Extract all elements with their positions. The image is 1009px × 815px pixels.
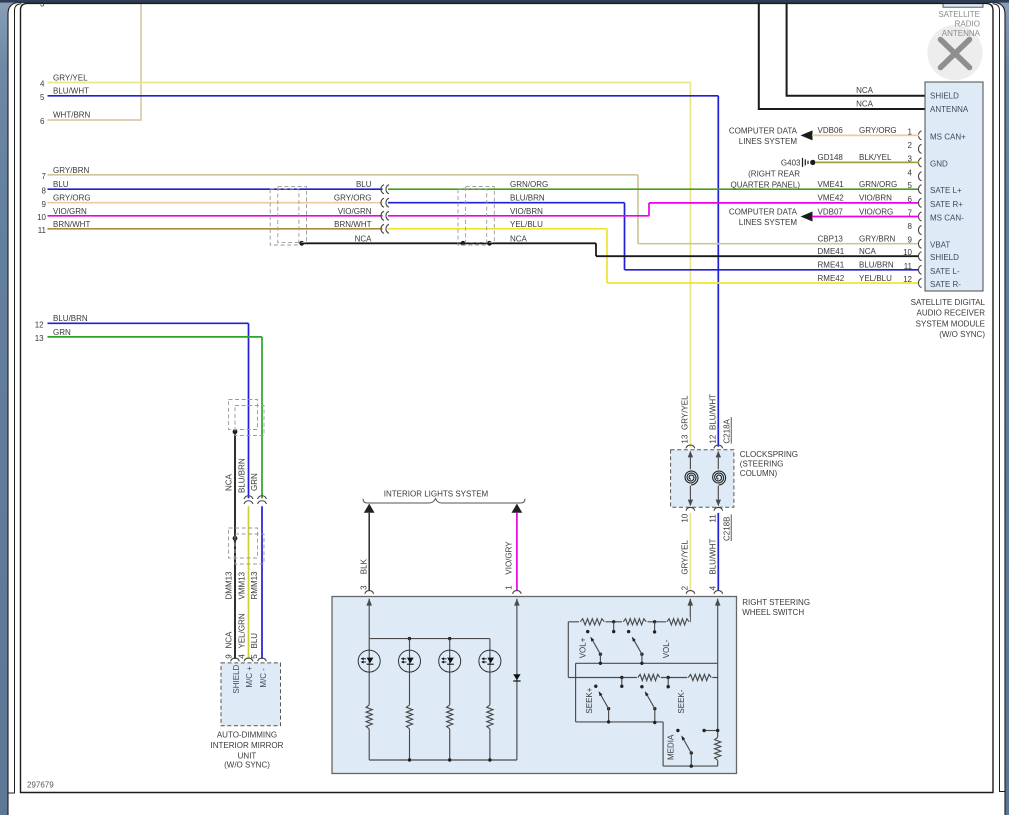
svg-text:12: 12 bbox=[708, 434, 717, 443]
svg-text:GD148: GD148 bbox=[818, 153, 844, 162]
svg-text:VIO/GRN: VIO/GRN bbox=[53, 207, 87, 216]
svg-text:UNIT: UNIT bbox=[238, 751, 257, 760]
svg-text:CLOCKSPRING: CLOCKSPRING bbox=[740, 450, 798, 459]
svg-text:BLU: BLU bbox=[250, 633, 259, 649]
svg-text:SEEK-: SEEK- bbox=[677, 689, 686, 713]
svg-text:GRY/ORG: GRY/ORG bbox=[53, 194, 91, 203]
svg-text:COMPUTER DATA: COMPUTER DATA bbox=[729, 126, 798, 135]
svg-text:9: 9 bbox=[908, 236, 913, 245]
svg-text:6: 6 bbox=[40, 117, 45, 126]
svg-text:(STEERING: (STEERING bbox=[740, 460, 784, 469]
svg-text:11: 11 bbox=[708, 514, 717, 523]
svg-text:GRY/YEL: GRY/YEL bbox=[53, 73, 88, 82]
svg-text:VIO/BRN: VIO/BRN bbox=[510, 207, 543, 216]
svg-text:GRN/ORG: GRN/ORG bbox=[510, 180, 548, 189]
svg-text:RADIO: RADIO bbox=[955, 20, 980, 29]
svg-text:CBP13: CBP13 bbox=[818, 235, 844, 244]
svg-text:12: 12 bbox=[903, 275, 912, 284]
svg-text:SATE L-: SATE L- bbox=[930, 267, 960, 276]
svg-text:RMM13: RMM13 bbox=[250, 571, 259, 600]
svg-text:VDB06: VDB06 bbox=[818, 126, 844, 135]
svg-text:4: 4 bbox=[708, 585, 717, 590]
svg-text:DME41: DME41 bbox=[818, 247, 845, 256]
svg-text:7: 7 bbox=[42, 172, 47, 181]
svg-text:NCA: NCA bbox=[856, 86, 874, 95]
svg-text:GRN: GRN bbox=[250, 473, 259, 491]
svg-text:BLU/BRN: BLU/BRN bbox=[53, 314, 88, 323]
svg-text:VME42: VME42 bbox=[818, 194, 845, 203]
svg-text:BLU/WHT: BLU/WHT bbox=[53, 87, 89, 96]
svg-text:5: 5 bbox=[250, 654, 259, 659]
svg-text:4: 4 bbox=[40, 80, 45, 89]
svg-text:BLU/BRN: BLU/BRN bbox=[510, 194, 545, 203]
svg-text:C218B: C218B bbox=[722, 517, 731, 541]
svg-text:(W/O SYNC): (W/O SYNC) bbox=[224, 761, 270, 770]
svg-text:8: 8 bbox=[908, 222, 913, 231]
svg-text:11: 11 bbox=[38, 226, 47, 235]
svg-text:NCA: NCA bbox=[856, 100, 874, 109]
svg-text:GRN/ORG: GRN/ORG bbox=[859, 180, 897, 189]
svg-text:VIO/GRN: VIO/GRN bbox=[338, 207, 372, 216]
svg-text:BLU/WHT: BLU/WHT bbox=[708, 394, 717, 430]
svg-text:NCA: NCA bbox=[859, 247, 877, 256]
svg-text:VIO/ORG: VIO/ORG bbox=[859, 207, 893, 216]
svg-text:INTERIOR LIGHTS SYSTEM: INTERIOR LIGHTS SYSTEM bbox=[384, 489, 489, 498]
svg-text:GRY/YEL: GRY/YEL bbox=[680, 540, 689, 575]
svg-text:8: 8 bbox=[42, 187, 47, 196]
svg-text:VMM13: VMM13 bbox=[237, 571, 246, 599]
svg-text:GRY/YEL: GRY/YEL bbox=[680, 395, 689, 430]
svg-text:NCA: NCA bbox=[225, 631, 234, 649]
svg-text:ANTENNA: ANTENNA bbox=[942, 29, 981, 38]
svg-text:COLUMN): COLUMN) bbox=[740, 469, 778, 478]
svg-text:SHIELD: SHIELD bbox=[930, 92, 959, 101]
svg-text:9: 9 bbox=[42, 200, 47, 209]
svg-text:GRY/ORG: GRY/ORG bbox=[859, 126, 897, 135]
svg-text:INTERIOR MIRROR: INTERIOR MIRROR bbox=[211, 741, 284, 750]
svg-text:4: 4 bbox=[237, 654, 246, 659]
svg-text:NCA: NCA bbox=[355, 234, 373, 243]
svg-text:MS CAN-: MS CAN- bbox=[930, 214, 964, 223]
svg-text:(W/O SYNC): (W/O SYNC) bbox=[939, 330, 985, 339]
svg-text:13: 13 bbox=[680, 434, 689, 443]
svg-text:BLU/WHT: BLU/WHT bbox=[708, 538, 717, 574]
svg-text:LINES SYSTEM: LINES SYSTEM bbox=[739, 137, 798, 146]
svg-text:GRY/ORG: GRY/ORG bbox=[334, 194, 372, 203]
svg-text:RME42: RME42 bbox=[818, 274, 845, 283]
svg-text:VIO/BRN: VIO/BRN bbox=[859, 194, 892, 203]
svg-text:WHEEL SWITCH: WHEEL SWITCH bbox=[742, 608, 804, 617]
svg-text:VBAT: VBAT bbox=[930, 241, 950, 250]
svg-text:10: 10 bbox=[37, 213, 46, 222]
svg-text:GRY/BRN: GRY/BRN bbox=[53, 166, 90, 175]
svg-text:VME41: VME41 bbox=[818, 180, 845, 189]
svg-text:LINES SYSTEM: LINES SYSTEM bbox=[739, 218, 798, 227]
svg-text:13: 13 bbox=[35, 334, 44, 343]
svg-text:MS CAN+: MS CAN+ bbox=[930, 132, 966, 141]
svg-text:GND: GND bbox=[930, 159, 948, 168]
svg-text:5: 5 bbox=[40, 93, 45, 102]
svg-text:YEL/BLU: YEL/BLU bbox=[510, 220, 543, 229]
svg-text:VOL-: VOL- bbox=[662, 639, 671, 658]
svg-text:2: 2 bbox=[680, 585, 689, 590]
svg-text:SATE R-: SATE R- bbox=[930, 280, 961, 289]
svg-text:10: 10 bbox=[680, 513, 689, 522]
svg-text:RIGHT STEERING: RIGHT STEERING bbox=[742, 598, 810, 607]
svg-text:BRN/WHT: BRN/WHT bbox=[53, 220, 90, 229]
svg-text:SHIELD: SHIELD bbox=[930, 253, 959, 262]
svg-text:SATE L+: SATE L+ bbox=[930, 186, 962, 195]
svg-text:(RIGHT REAR: (RIGHT REAR bbox=[748, 169, 800, 178]
svg-text:BRN/WHT: BRN/WHT bbox=[334, 220, 371, 229]
svg-text:ANTENNA: ANTENNA bbox=[930, 105, 969, 114]
svg-text:1: 1 bbox=[504, 585, 513, 590]
svg-text:BLU: BLU bbox=[356, 180, 372, 189]
svg-text:6: 6 bbox=[908, 195, 913, 204]
svg-text:GRN: GRN bbox=[53, 328, 71, 337]
svg-text:297679: 297679 bbox=[27, 780, 54, 789]
svg-text:BLK/YEL: BLK/YEL bbox=[859, 153, 892, 162]
svg-text:YEL/GRN: YEL/GRN bbox=[237, 613, 246, 648]
svg-text:SATELLITE: SATELLITE bbox=[938, 10, 980, 19]
svg-text:GRY/BRN: GRY/BRN bbox=[859, 235, 896, 244]
svg-text:AUDIO RECEIVER: AUDIO RECEIVER bbox=[917, 309, 986, 318]
svg-text:WHT/BRN: WHT/BRN bbox=[53, 111, 91, 120]
svg-text:BLU/BRN: BLU/BRN bbox=[859, 261, 894, 270]
svg-text:BLK: BLK bbox=[360, 558, 369, 574]
svg-text:VIO/GRY: VIO/GRY bbox=[504, 541, 513, 575]
svg-text:VDB07: VDB07 bbox=[818, 207, 844, 216]
svg-text:YEL/BLU: YEL/BLU bbox=[859, 274, 892, 283]
svg-text:VOL+: VOL+ bbox=[579, 637, 588, 658]
svg-text:5: 5 bbox=[908, 181, 913, 190]
svg-text:SATELLITE DIGITAL: SATELLITE DIGITAL bbox=[911, 298, 986, 307]
svg-text:AUTO-DIMMING: AUTO-DIMMING bbox=[217, 730, 277, 739]
svg-text:12: 12 bbox=[35, 321, 44, 330]
svg-text:9: 9 bbox=[225, 654, 234, 659]
svg-text:NCA: NCA bbox=[510, 234, 528, 243]
svg-text:10: 10 bbox=[903, 248, 912, 257]
svg-text:G403: G403 bbox=[781, 158, 801, 167]
svg-text:SYSTEM MODULE: SYSTEM MODULE bbox=[916, 319, 985, 328]
svg-text:4: 4 bbox=[908, 168, 913, 177]
svg-text:BLU/BRN: BLU/BRN bbox=[237, 458, 246, 493]
svg-text:2: 2 bbox=[908, 141, 913, 150]
svg-text:SEEK+: SEEK+ bbox=[585, 687, 594, 713]
svg-text:3: 3 bbox=[360, 585, 369, 590]
svg-text:NCA: NCA bbox=[225, 473, 234, 491]
svg-text:RME41: RME41 bbox=[818, 261, 845, 270]
svg-text:M/C +: M/C + bbox=[245, 666, 254, 688]
svg-text:SHIELD: SHIELD bbox=[232, 664, 241, 693]
svg-text:BLU: BLU bbox=[53, 180, 69, 189]
svg-text:SATE R+: SATE R+ bbox=[930, 200, 963, 209]
svg-text:QUARTER PANEL): QUARTER PANEL) bbox=[731, 180, 801, 189]
svg-text:DMM13: DMM13 bbox=[225, 571, 234, 600]
svg-text:MEDIA: MEDIA bbox=[666, 734, 675, 760]
svg-text:COMPUTER DATA: COMPUTER DATA bbox=[729, 208, 798, 217]
svg-text:C218A: C218A bbox=[722, 418, 731, 443]
svg-text:M/C -: M/C - bbox=[259, 668, 268, 688]
svg-text:11: 11 bbox=[904, 262, 913, 271]
